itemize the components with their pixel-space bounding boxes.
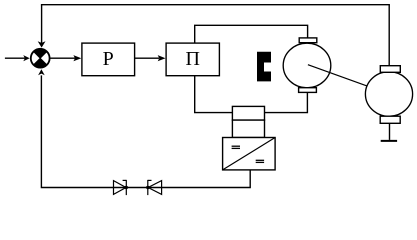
arrow into summing junction (left) bbox=[23, 55, 29, 61]
block Pi (converter) bbox=[166, 43, 219, 76]
arrow into summing junction (top) bbox=[38, 41, 46, 47]
motor brush bottom bbox=[299, 88, 317, 93]
wire: top feedback vertical into summing junction bbox=[41, 5, 43, 44]
wire: Pi bottom to excitation block bbox=[195, 76, 233, 113]
wire: setpoint input bbox=[5, 57, 25, 59]
arrow into summing junction (bottom) bbox=[38, 69, 45, 75]
shaft bbox=[308, 65, 389, 94]
arrow into block Pi bbox=[158, 55, 166, 61]
ground bbox=[381, 123, 397, 141]
wire: P to Pi bbox=[135, 57, 159, 59]
wire: Pi top to motor top brush bbox=[195, 25, 308, 43]
tachogenerator brush top bbox=[380, 66, 400, 73]
block P (regulator) bbox=[82, 43, 135, 76]
excitation winding block bbox=[232, 106, 264, 137]
motor armature M bbox=[283, 43, 331, 88]
tachogenerator brush bottom bbox=[380, 116, 400, 123]
svg-text:Р: Р bbox=[103, 48, 114, 70]
wire: motor bottom to excitation block bbox=[265, 92, 308, 112]
arrow into block P bbox=[73, 55, 81, 61]
wire: converter output down and bottom feedback bbox=[41, 75, 250, 187]
field winding (stator pole) bbox=[257, 52, 271, 82]
motor brush top bbox=[299, 38, 317, 43]
converter block (DC-DC) bbox=[223, 138, 276, 170]
zener diode VD2 bbox=[146, 180, 162, 195]
tachogenerator BR bbox=[365, 72, 412, 117]
zener diode VD1 bbox=[114, 180, 129, 195]
wire: top feedback horizontal bbox=[41, 4, 390, 6]
wire: feedback from tachogenerator up bbox=[388, 5, 390, 66]
summing junction bbox=[31, 49, 50, 68]
wire: summing junction output bbox=[50, 57, 75, 59]
svg-text:П: П bbox=[185, 48, 199, 70]
